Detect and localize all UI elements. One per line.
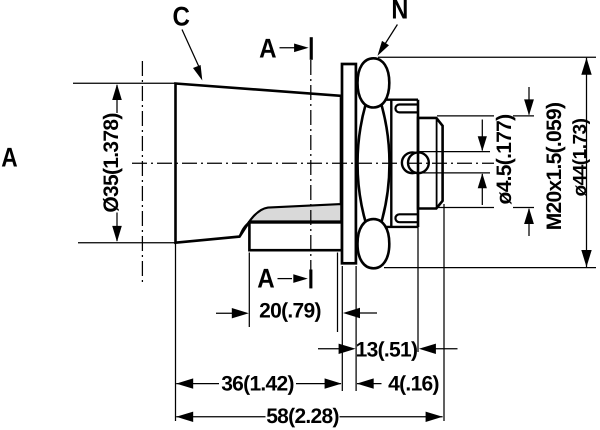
dim o44 extension top [378,56,596,58]
threaded stub M20 [418,118,443,209]
flange ear lobe bottom [358,219,390,268]
ext line pin axis [417,227,419,352]
svg-text:C: C [173,1,190,31]
section marker A top [280,47,297,49]
dim 4 arrow [357,383,382,385]
leader C [182,30,200,69]
ext line key left [248,253,250,328]
svg-text:58(2.28): 58(2.28) [266,405,339,428]
cross hole o4.5 edge lines [420,152,491,173]
ear bottom edge [385,226,418,228]
svg-text:Ø35(1.378): Ø35(1.378) [100,113,123,212]
svg-text:13(.51): 13(.51) [356,339,418,362]
svg-text:N: N [391,0,408,25]
flange plate (4mm) [342,64,356,263]
svg-text:ø44(1.73): ø44(1.73) [570,118,591,196]
svg-text:36(1.42): 36(1.42) [221,372,294,395]
ext line flange rear face [355,266,357,391]
dim O35 lines+arrows [116,85,118,241]
tapered shaft C (cone with keyway) [176,84,342,243]
ext line shaft end [443,204,445,421]
dim 13 arrows [318,348,341,350]
ext line flange front face [341,266,343,391]
dim 20 arrows [216,312,234,314]
dim o44 extension bottom [384,267,596,269]
label o4.5(.177) [494,112,513,211]
ear top edge [385,98,418,100]
dim M20 extension top [437,115,534,117]
svg-text:A: A [1,142,17,172]
key (parallel key under shaft) [249,222,342,250]
flange boss lens N [358,82,390,246]
svg-text:ø4.5(.177): ø4.5(.177) [493,115,516,205]
gauge plane line [141,61,143,283]
dim 58 line+arrows [176,416,265,418]
ext line shaft start [175,244,177,421]
thread chamfer line [436,118,438,209]
keyway floor (gray) [240,204,342,236]
svg-text:A: A [259,34,276,64]
dim 36 line+arrows [176,383,219,385]
leader N [382,25,398,50]
top ear slot [395,105,417,113]
dim o4.5 arrows [481,120,483,206]
dim M20 arrows [528,87,530,236]
hub rear face line [390,100,392,227]
dim o44 line+arrows [586,58,588,267]
svg-text:20(.79): 20(.79) [259,300,321,323]
shoulder line at thread start [417,100,420,227]
svg-text:M20x1.5(.059): M20x1.5(.059) [543,103,566,230]
section line A-A [310,60,312,270]
svg-text:A: A [257,263,274,293]
section marker A bottom [278,278,293,280]
dim O35 extension top [73,82,177,84]
main centerline [128,162,495,164]
svg-text:4(.16): 4(.16) [388,372,439,395]
dim O35 extension bottom [78,242,177,244]
cross pin silhouette [402,152,423,173]
cross pin end face [408,152,429,173]
ext line key right [337,253,339,333]
bottom ear slot [395,214,417,222]
dim M20 extension bottom [437,207,534,209]
flange ear lobe top [358,58,390,107]
